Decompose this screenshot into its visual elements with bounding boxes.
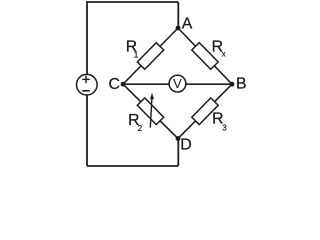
- resistor R3: [192, 98, 218, 125]
- voltmeter V: [169, 75, 186, 92]
- node A: [176, 26, 181, 31]
- svg-text:1: 1: [134, 50, 139, 59]
- svg-text:C: C: [109, 76, 120, 93]
- wire arm C-A: [123, 28, 178, 84]
- svg-text:3: 3: [222, 123, 227, 132]
- svg-text:D: D: [180, 137, 191, 154]
- wire arm D-B: [178, 84, 232, 138]
- node D: [176, 136, 181, 141]
- wire top horizontal: [87, 1, 178, 3]
- svg-text:2: 2: [138, 124, 143, 133]
- resistor R2: [137, 98, 163, 125]
- arrow of adjustable R2: [150, 93, 154, 128]
- wire left upper: [86, 1, 88, 74]
- resistor R1: [137, 43, 163, 70]
- node B: [230, 82, 235, 87]
- wire riser to node A: [177, 2, 179, 28]
- svg-text:V: V: [173, 76, 182, 91]
- wire left lower: [86, 95, 88, 166]
- svg-text:A: A: [182, 16, 193, 33]
- node C: [121, 82, 126, 87]
- wire meter C-B: [123, 83, 232, 85]
- wire arm C-D: [123, 84, 178, 138]
- resistor Rx: [192, 43, 218, 70]
- wire arm A-B: [178, 28, 232, 84]
- svg-text:B: B: [236, 76, 247, 93]
- svg-text:x: x: [222, 50, 226, 59]
- wire bottom horizontal: [87, 165, 178, 167]
- wire riser to node D: [177, 139, 179, 167]
- battery V source: [77, 74, 98, 95]
